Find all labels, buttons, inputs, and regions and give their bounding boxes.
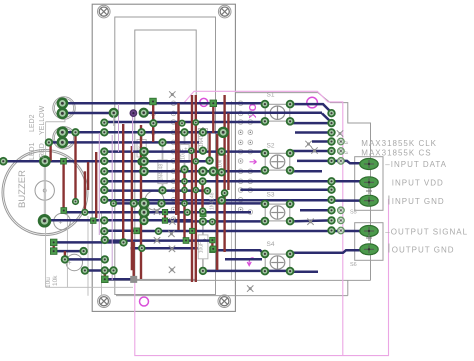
svg-text:RED: RED [39, 143, 46, 158]
svg-text:≈: ≈ [345, 140, 349, 147]
svg-text:INPUT VDD: INPUT VDD [392, 179, 444, 188]
svg-text:S2: S2 [267, 143, 275, 150]
svg-text:S6: S6 [350, 262, 357, 268]
svg-text:LED2: LED2 [29, 114, 36, 132]
svg-text:–OUTPUT SIGNAL: –OUTPUT SIGNAL [385, 227, 468, 236]
svg-text:YELLOW: YELLOW [39, 105, 46, 135]
svg-text:BUZZER: BUZZER [17, 170, 28, 208]
svg-text:MAX31855K CLK: MAX31855K CLK [361, 139, 437, 148]
svg-text:S3: S3 [267, 191, 275, 198]
svg-text:MAX31855K CS: MAX31855K CS [361, 148, 431, 157]
svg-text:S1: S1 [267, 91, 275, 98]
svg-text:INPUT GND: INPUT GND [392, 197, 445, 206]
svg-text:S4: S4 [267, 241, 275, 248]
svg-text:LED1: LED1 [29, 142, 36, 160]
svg-text:OUTPUT GND: OUTPUT GND [392, 246, 455, 255]
svg-text:10uF: 10uF [199, 242, 205, 253]
svg-text:S5: S5 [350, 210, 357, 216]
svg-text:10k: 10k [52, 275, 59, 286]
svg-text:1N4148: 1N4148 [210, 192, 216, 210]
svg-text:–INPUT DATA: –INPUT DATA [385, 160, 447, 169]
svg-text:10u: 10u [45, 277, 52, 288]
svg-text:≈: ≈ [345, 150, 349, 157]
